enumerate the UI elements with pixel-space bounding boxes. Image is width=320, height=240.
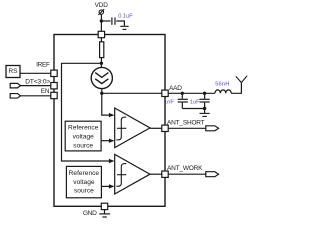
arrow into U2 input b <box>109 139 114 143</box>
pin ANT_WORK <box>162 171 168 177</box>
wire EN port to EN pin <box>21 95 52 97</box>
wire capacitor C1 to ground <box>116 21 124 26</box>
wire inductor to antenna <box>231 83 241 94</box>
ground (VDD decoupling) <box>120 26 129 29</box>
VDD terminal <box>98 9 104 15</box>
port EN <box>10 94 20 99</box>
capacitor C1 0.1uF <box>112 17 115 24</box>
op-amp U2 (ANT_SHORT comparator) <box>115 108 150 148</box>
ground (antenna filter) <box>200 113 210 116</box>
RS box <box>6 66 20 78</box>
node capacitor C2 junction <box>181 92 184 95</box>
reference source 1 box <box>65 121 101 151</box>
svg-text:Reference: Reference <box>68 125 99 132</box>
wire U3 output to ANT_WORK pin <box>150 173 162 175</box>
pin EN <box>51 92 57 98</box>
wire VDD terminal to VDD pin <box>100 14 102 31</box>
antenna ANT <box>236 76 247 83</box>
wire IREF node left and down to comparator U3 input a <box>62 63 114 161</box>
wire current source to AAD node <box>101 89 103 94</box>
pin AAD <box>162 90 168 96</box>
svg-text:voltage: voltage <box>73 179 95 186</box>
svg-text:EN: EN <box>41 88 50 95</box>
svg-text:voltage: voltage <box>73 134 95 141</box>
wire to capacitor C1 <box>101 20 110 22</box>
svg-text:source: source <box>73 142 93 149</box>
node capacitor C3 junction <box>203 92 206 95</box>
hysteresis symbol U2 <box>116 117 126 140</box>
svg-text:AAD: AAD <box>169 85 182 92</box>
reference source 2 box <box>66 166 101 197</box>
wire C2 bottom to C3 bottom <box>182 108 204 110</box>
svg-text:ANT_WORK: ANT_WORK <box>167 165 203 172</box>
wire reference source 2 to U3 input b <box>101 185 113 187</box>
arrow into U2 input a <box>109 113 114 117</box>
svg-text:RS: RS <box>9 68 18 75</box>
chip U1 outline <box>54 35 165 207</box>
ground GND <box>99 210 110 217</box>
wire ANT_WORK pin to port <box>168 173 206 175</box>
wire RS to IREF pin <box>20 72 51 74</box>
current source I1 <box>91 67 112 88</box>
op-amp U3 (ANT_WORK comparator) <box>115 154 150 194</box>
wire DT port to DT pin <box>21 85 52 87</box>
svg-text:DT<3:0>: DT<3:0> <box>25 78 50 85</box>
wire reference source 1 to U2 input b <box>101 140 113 142</box>
wire AAD node to AAD pin <box>102 92 162 94</box>
svg-text:GND: GND <box>83 210 97 217</box>
port ANT_WORK <box>206 172 219 177</box>
wire AAD pin to inductor <box>168 92 215 94</box>
svg-text:source: source <box>74 188 94 195</box>
svg-text:0.1uF: 0.1uF <box>118 13 133 19</box>
svg-text:ANT_SHORT: ANT_SHORT <box>167 120 205 127</box>
pin ANT_SHORT <box>162 125 168 131</box>
svg-text:Reference: Reference <box>69 170 100 177</box>
arrow into U3 input b <box>109 184 114 188</box>
pin GND <box>101 203 107 209</box>
port ANT_SHORT <box>206 126 219 131</box>
capacitor C2 1nF <box>178 93 188 108</box>
resistor R1 <box>100 38 102 43</box>
inductor L1 56nH <box>215 90 231 93</box>
wire AAD node down to comparator U2 input a <box>102 93 114 115</box>
wire U2 output to ANT_SHORT pin <box>150 127 162 129</box>
svg-text:1nF: 1nF <box>164 99 174 105</box>
node ground junction <box>203 107 206 110</box>
arrow into U3 input a <box>109 159 114 163</box>
port DT<3:0> <box>10 83 20 88</box>
capacitor C3 1uF <box>200 93 210 108</box>
svg-text:56nH: 56nH <box>215 81 229 87</box>
wire resistor R1 to current source <box>100 58 102 68</box>
svg-text:1uF: 1uF <box>190 99 200 105</box>
node AAD junction inside chip <box>100 92 103 95</box>
node IREF junction <box>100 62 103 65</box>
node VDD junction <box>100 19 103 22</box>
svg-text:IREF: IREF <box>36 62 50 69</box>
pin IREF <box>51 70 57 76</box>
wire to ground <box>204 109 206 114</box>
pin DT <box>51 83 57 89</box>
hysteresis symbol U3 <box>116 164 126 187</box>
wire ANT_SHORT pin to port <box>168 127 206 129</box>
pin VDD <box>98 31 104 37</box>
svg-text:VDD: VDD <box>95 2 109 9</box>
